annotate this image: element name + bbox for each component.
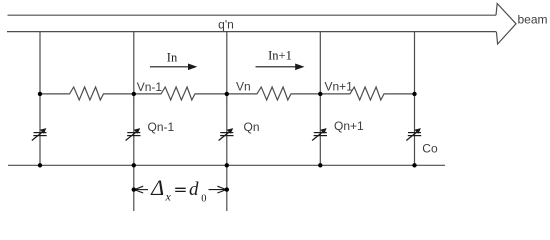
dimension junction dot right	[225, 187, 229, 191]
dimension extension line left x=133.8	[133, 165, 135, 211]
svg-text:d: d	[189, 179, 199, 200]
svg-text:In: In	[167, 51, 178, 65]
capacitor (leftmost, unlabeled) on x=40	[32, 128, 47, 140]
wire vertical node Vn-1 column x=133.8	[133, 32, 135, 166]
resistor R2 between x=133.8 and x=226.8	[134, 87, 227, 100]
ground bus	[8, 164, 445, 166]
svg-text:x: x	[165, 190, 172, 204]
node dot Vn at resistor row	[225, 92, 229, 96]
node dot Co at resistor row	[412, 92, 416, 96]
svg-text:beam: beam	[518, 13, 548, 27]
resistor R3 between x=226.8 and x=320.3	[227, 87, 320, 100]
ground junction dot x=320.3	[318, 163, 322, 167]
wire vertical node Co column x=414.5	[414, 32, 416, 166]
beam arrow body bottom line	[7, 31, 496, 33]
ground junction dot x=226.8	[225, 163, 229, 167]
dimension arrow right pointing to x=226.8	[209, 186, 227, 193]
dimension arrow left pointing to x=133.8	[134, 186, 148, 193]
dimension junction dot left	[132, 187, 136, 191]
svg-text:q'n: q'n	[218, 18, 234, 32]
dimension label delta-x = d0	[150, 175, 206, 204]
svg-text:0: 0	[201, 193, 206, 204]
capacitor Qn+1 on x=320.3	[312, 128, 327, 140]
svg-text:Qn+1: Qn+1	[334, 119, 364, 133]
beam arrowhead outline	[496, 4, 516, 45]
capacitor Co on x=414.5	[406, 128, 421, 140]
wire vertical node Vn-1-left column x=40	[39, 32, 41, 166]
node dot Vn-1-left at resistor row	[38, 92, 42, 96]
svg-text:Qn-1: Qn-1	[148, 120, 175, 134]
svg-text:Vn: Vn	[236, 79, 251, 93]
svg-text:Co: Co	[422, 142, 438, 156]
svg-text:Vn+1: Vn+1	[325, 80, 354, 94]
dimension extension line right x=226.8	[226, 165, 228, 211]
capacitor Qn on x=226.8	[219, 128, 234, 140]
current arrow In+1	[256, 64, 305, 71]
beam arrow body top line	[8, 14, 497, 16]
node dot Vn-1 at resistor row	[132, 92, 136, 96]
resistor R1 between x=40 and x=133.8	[40, 87, 134, 100]
node dot Vn+1 at resistor row	[318, 92, 322, 96]
ground junction dot x=414.5	[412, 163, 416, 167]
capacitor Qn-1 on x=133.8	[126, 128, 141, 140]
ground junction dot x=40	[38, 163, 42, 167]
wire vertical node Vn+1 column x=320.3	[319, 32, 321, 166]
wire vertical node Vn column x=226.8	[226, 32, 228, 166]
ground junction dot x=133.8	[132, 163, 136, 167]
current arrow In	[150, 64, 197, 71]
svg-text:Vn-1: Vn-1	[137, 80, 163, 94]
svg-text:Δ: Δ	[150, 175, 164, 200]
svg-text:Qn: Qn	[244, 120, 260, 134]
svg-text:In+1: In+1	[268, 48, 292, 62]
resistor R4 between x=320.3 and x=414.5	[320, 87, 414, 100]
